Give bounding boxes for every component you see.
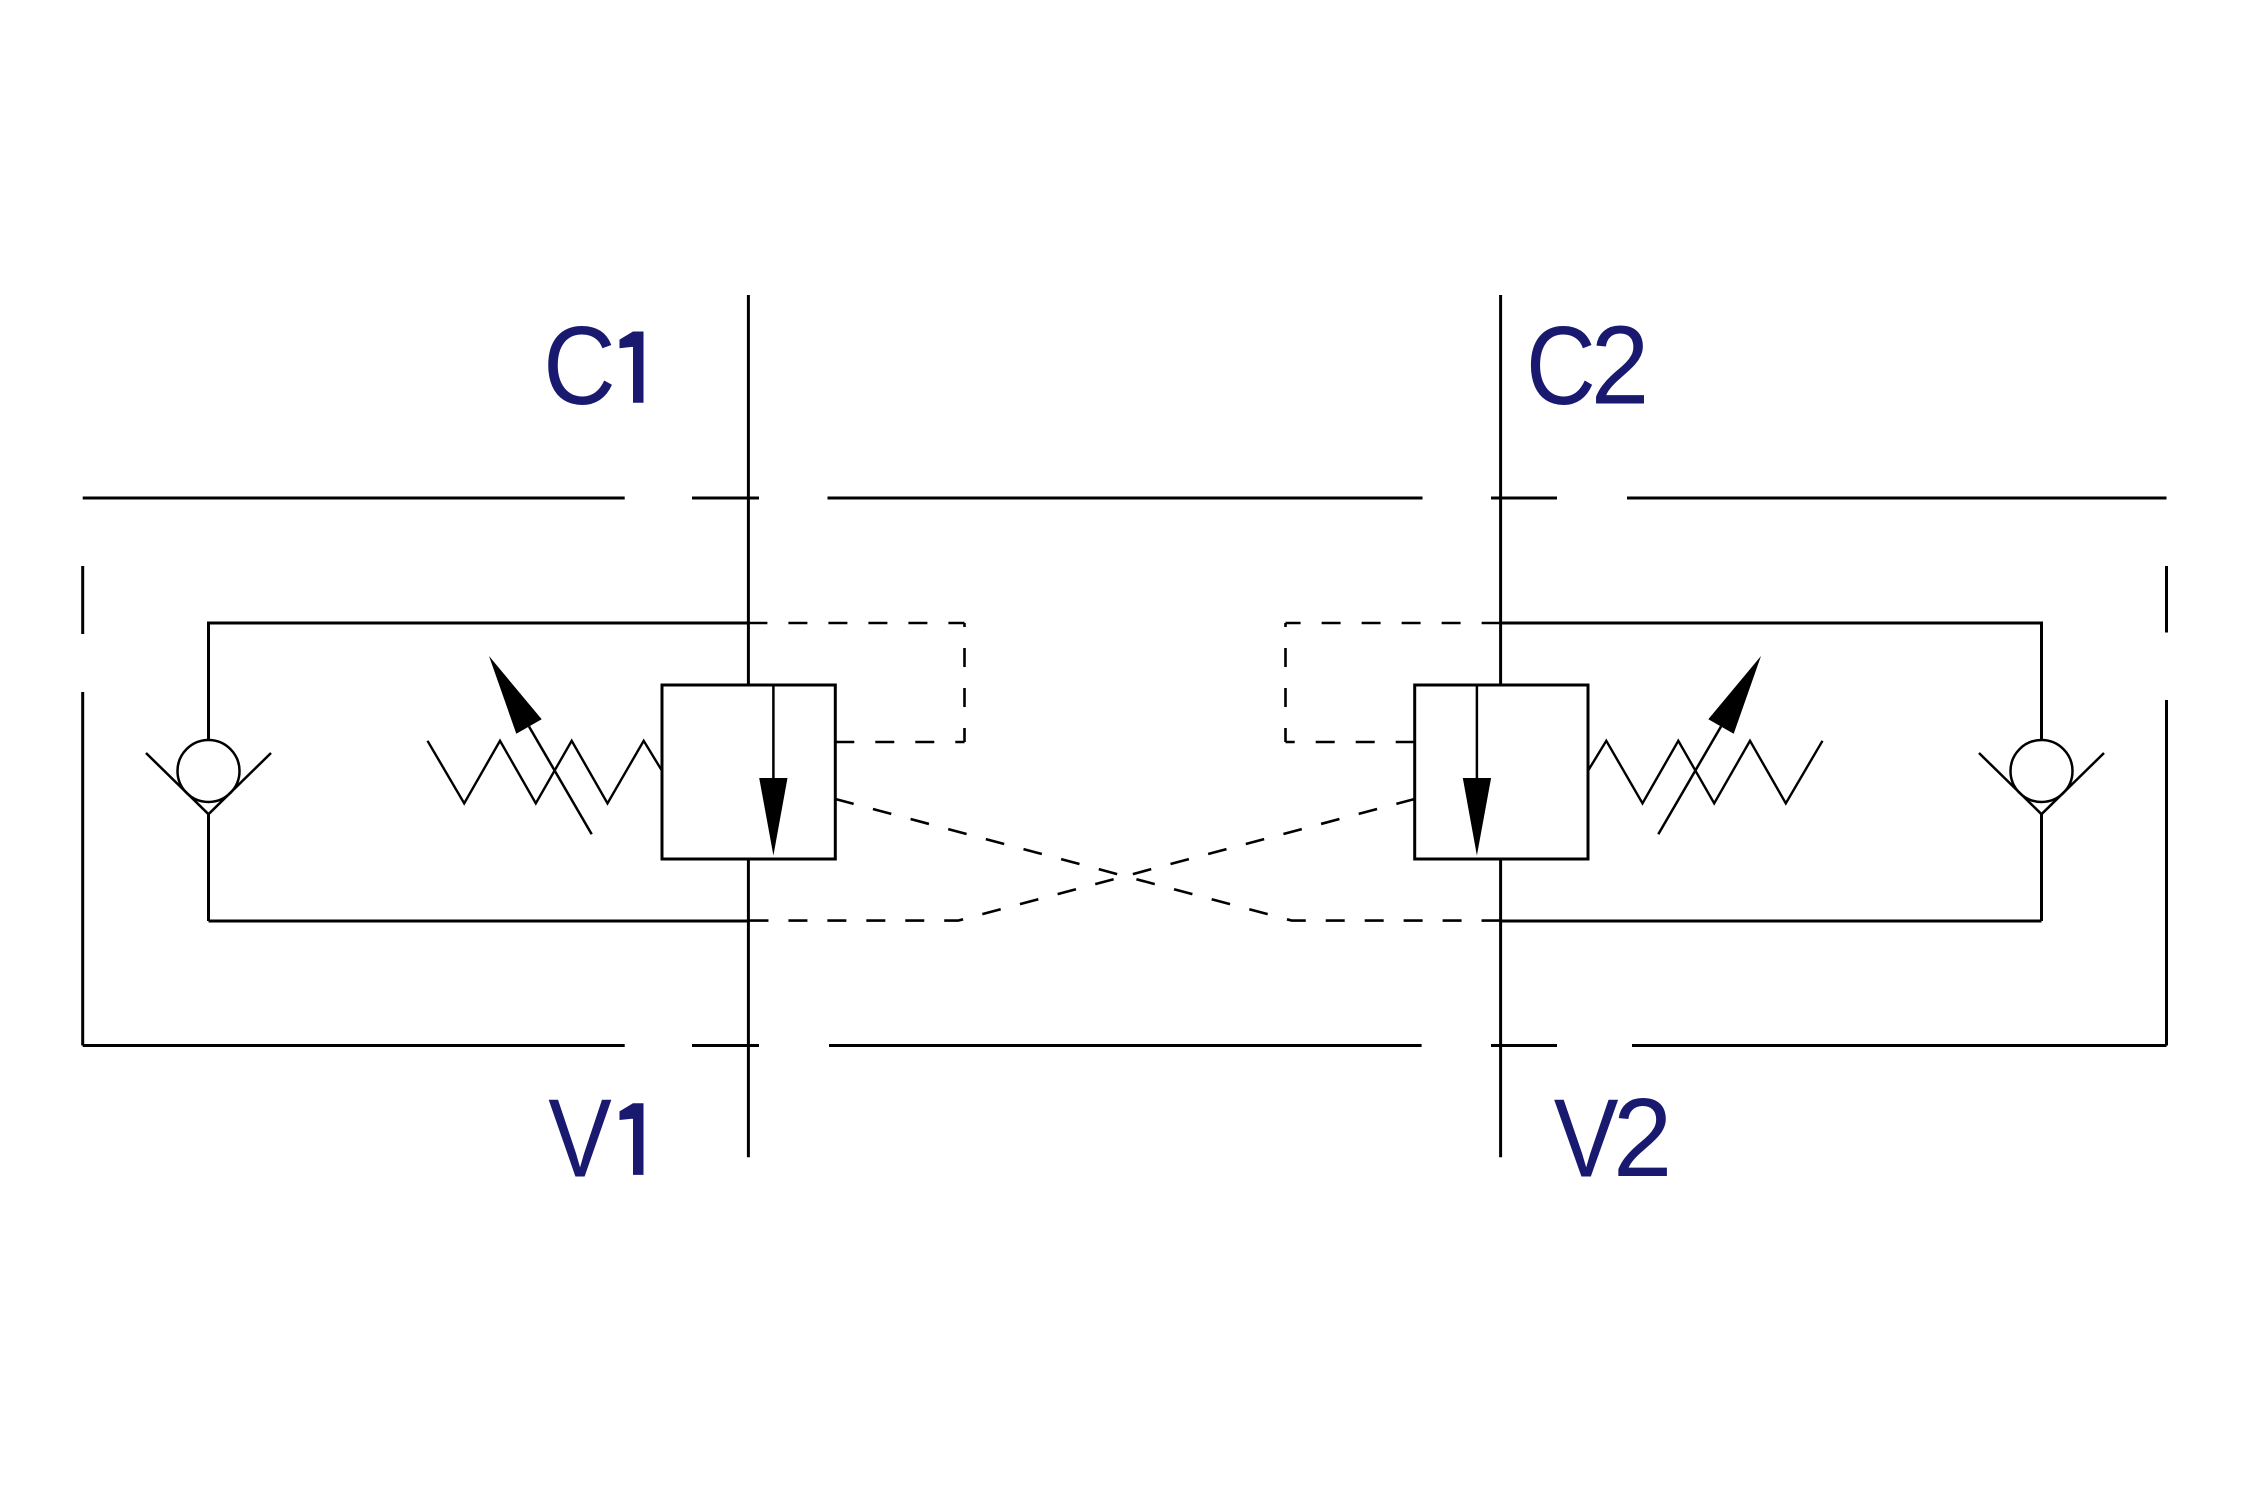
label V2 (1554, 1077, 1673, 1201)
label C1 (543, 304, 643, 428)
pilot sense box of valve V2 (dashed) (1286, 623, 1501, 742)
node C2 line (port C2 to valve V2) (1499, 295, 1502, 685)
pilot line from valve V2 to node V1 (dashed) (748, 799, 1414, 921)
pilot sense box of valve V1 (dashed) (748, 623, 964, 742)
check valve CV1 seat (146, 753, 271, 814)
spring of valve V2 (adjustable) (1588, 741, 1823, 804)
spring of valve V1 (adjustable) (428, 741, 663, 804)
check valve CV1 ball (178, 740, 240, 802)
check valve CV2 seat (1979, 753, 2104, 814)
valve body boundary right edge (2165, 566, 2168, 1046)
valve body boundary top edge (83, 497, 2167, 500)
svg-text:C: C (543, 304, 616, 428)
node V1 line (valve V1 to port V1) (747, 859, 750, 1157)
adjustment arrow of valve V2 (1658, 656, 1761, 834)
node C1 line (port C1 to valve V1) (747, 295, 750, 685)
valve body boundary bottom edge (83, 1044, 2167, 1047)
valve body boundary left edge (81, 566, 84, 1046)
wire: right bypass loop (1501, 623, 2042, 921)
pilot line from valve V1 to node V2 (dashed) (835, 799, 1500, 921)
relief valve V1 flow arrow (759, 685, 787, 856)
svg-text:C: C (1526, 305, 1596, 429)
relief valve V2 flow arrow (1463, 685, 1491, 856)
node V2 line (valve V2 to port V2) (1499, 859, 1502, 1157)
wire: left bypass loop (209, 623, 749, 921)
adjustment arrow of valve V1 (489, 656, 592, 834)
relief valve V2 body square (1415, 685, 1588, 859)
svg-text:V: V (1554, 1077, 1619, 1200)
label C2 (1526, 303, 1649, 429)
relief valve V1 body square (662, 685, 835, 859)
check valve CV2 ball (2011, 740, 2073, 802)
svg-text:V: V (548, 1075, 612, 1200)
label V1 (548, 1075, 643, 1200)
svg-text:2: 2 (1613, 1077, 1672, 1200)
svg-text:2: 2 (1591, 303, 1650, 427)
